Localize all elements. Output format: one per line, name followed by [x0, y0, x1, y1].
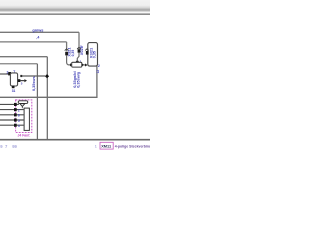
- W6 left end marker: [20, 75, 22, 77]
- svg-text:1: 1: [95, 145, 97, 149]
- wire P4: [0, 119, 24, 121]
- svg-text:gn/ws: gn/ws: [32, 27, 43, 32]
- svg-text:3: 3: [80, 45, 82, 49]
- wire W8 from fan box bottom down and left: [0, 66, 97, 97]
- svg-text:J4 Fanf.: J4 Fanf.: [18, 133, 31, 137]
- svg-text:2: 2: [98, 64, 100, 68]
- svg-text:4: 4: [18, 124, 20, 128]
- wire P1: [0, 103, 19, 105]
- W7 arrowhead: [24, 79, 27, 82]
- wire V4 vertical x37.4 down to bottom rail: [36, 64, 38, 140]
- frame top border: [0, 13, 150, 15]
- svg-text:12: 12: [96, 70, 100, 74]
- svg-text:31: 31: [12, 89, 16, 93]
- pad P1: [14, 103, 17, 106]
- wire W2 horizontal y42: [0, 41, 67, 43]
- wire V1 vertical x79: [78, 32, 80, 49]
- connector pad X321: [65, 52, 68, 56]
- svg-text:0,35sw/g: 0,35sw/g: [76, 71, 80, 88]
- horn pill symbol: [18, 101, 28, 104]
- title block box: [100, 142, 113, 149]
- svg-text:,4: ,4: [36, 35, 39, 39]
- svg-text:6: 6: [18, 114, 20, 118]
- horn inner connector rect: [24, 108, 29, 130]
- caret above fan box pad: [85, 49, 89, 51]
- arrowhead into sensor left pin: [70, 63, 72, 66]
- fan box left edge pad: [86, 51, 89, 55]
- wire V1 lower jog into sensor box: [77, 53, 79, 61]
- relay pad top-left: [8, 72, 11, 75]
- svg-text:4-polige Steckverbindung a/b: 4-polige Steckverbindung a/b: [115, 145, 150, 149]
- junction dot on V3: [45, 74, 49, 78]
- wire P2: [0, 109, 24, 111]
- connector pad X021: [78, 49, 81, 52]
- sensor top entry pad: [76, 61, 79, 63]
- fan box V7: [88, 43, 98, 67]
- wire W5 into relay: [0, 73, 10, 75]
- connector caret above X021 pad: [77, 47, 81, 49]
- pad P4: [14, 119, 17, 122]
- pad P5: [14, 124, 17, 127]
- wire W7 relay stub: [20, 80, 24, 82]
- svg-text:XM11: XM11: [101, 144, 112, 149]
- svg-text:0,35: 0,35: [93, 51, 97, 58]
- toolbar strip: [0, 0, 150, 13]
- svg-text:0,35: 0,35: [71, 50, 75, 57]
- svg-text:0,35sws: 0,35sws: [32, 76, 36, 91]
- relay J box: [10, 73, 17, 86]
- svg-text:5: 5: [18, 119, 20, 123]
- wire V2 lower arc to sensor left pin: [67, 55, 71, 65]
- wire V3 vertical x47.3 down to bottom rail: [46, 57, 48, 140]
- sensor right pad: [82, 63, 85, 66]
- horn component purple dashed box: [16, 100, 32, 133]
- pad P2: [14, 108, 17, 111]
- wire P5: [0, 124, 24, 126]
- wire W6 relay to junction: [22, 75, 45, 77]
- wire W1 gn/ws horizontal y32: [0, 31, 79, 33]
- wire W4 horizontal y64: [0, 63, 37, 65]
- relay pad bottom: [12, 86, 15, 89]
- connector caret above X321 pad: [65, 49, 69, 51]
- sensor box F18: [72, 62, 82, 67]
- svg-text:99: 99: [12, 144, 17, 149]
- svg-text:2: 2: [18, 108, 20, 112]
- horn triangle: [20, 104, 25, 107]
- wire sensor to fan box: [84, 64, 85, 66]
- relay pad right: [18, 79, 21, 82]
- arrowhead into fan box: [85, 64, 88, 67]
- wire P3: [0, 114, 24, 116]
- bottom rail: [0, 139, 150, 141]
- wire W3 horizontal y57: [0, 56, 47, 58]
- horn stem: [21, 106, 23, 108]
- wire V2 vertical x66.6: [66, 42, 68, 51]
- pad P3: [14, 113, 17, 116]
